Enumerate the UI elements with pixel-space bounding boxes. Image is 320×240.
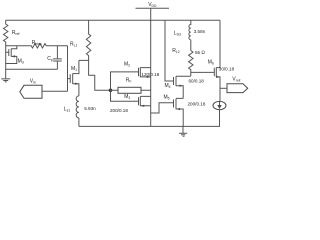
- svg-text:Rbias: Rbias: [32, 40, 42, 46]
- svg-text:5.93n: 5.93n: [84, 106, 96, 111]
- svg-text:200/0.18: 200/0.18: [188, 101, 206, 106]
- svg-text:LD3: LD3: [174, 31, 181, 37]
- svg-text:M3: M3: [124, 94, 130, 100]
- svg-text:Vout: Vout: [232, 76, 240, 82]
- svg-text:3.58n: 3.58n: [194, 29, 206, 34]
- svg-text:30/0.18: 30/0.18: [219, 66, 235, 71]
- svg-text:M4: M4: [165, 83, 171, 89]
- svg-text:120/0.18: 120/0.18: [141, 72, 159, 77]
- svg-text:Cp: Cp: [47, 56, 53, 62]
- svg-text:Ls1: Ls1: [64, 107, 70, 113]
- svg-text:Md: Md: [18, 59, 24, 65]
- svg-text:55 Ω: 55 Ω: [195, 50, 205, 55]
- svg-text:M1: M1: [71, 66, 77, 72]
- svg-text:M6: M6: [208, 59, 214, 65]
- svg-text:60/0.18: 60/0.18: [189, 78, 205, 83]
- svg-text:RL1: RL1: [70, 42, 78, 48]
- svg-text:VDD: VDD: [148, 2, 157, 8]
- svg-text:RL2: RL2: [172, 48, 180, 54]
- svg-text:Rref: Rref: [12, 30, 20, 36]
- svg-text:M2: M2: [124, 62, 130, 68]
- svg-text:RF: RF: [126, 77, 132, 83]
- svg-text:M5: M5: [164, 94, 170, 100]
- svg-text:200/0.18: 200/0.18: [110, 108, 128, 113]
- svg-text:Vin: Vin: [30, 79, 36, 85]
